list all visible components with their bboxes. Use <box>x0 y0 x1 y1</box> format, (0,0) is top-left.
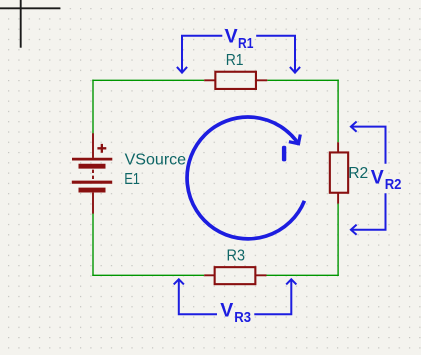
svg-text:R2: R2 <box>348 165 368 182</box>
resistor R3 <box>204 267 266 284</box>
svg-text:VSource: VSource <box>125 151 187 168</box>
svg-text:R1: R1 <box>238 36 253 52</box>
label I <box>282 146 286 162</box>
svg-text:V: V <box>371 166 384 188</box>
cell 2 short plate <box>79 188 106 193</box>
pin 1 (top) <box>92 133 94 158</box>
svg-text:R3: R3 <box>227 247 246 264</box>
current loop arrowhead <box>289 135 300 144</box>
dashed link <box>92 170 94 179</box>
R2 pins <box>337 142 339 203</box>
svg-text:V: V <box>220 300 233 322</box>
current loop arc <box>187 117 304 239</box>
svg-text:R1: R1 <box>226 52 244 69</box>
wire top (net between E1, R1, R2) <box>92 80 338 276</box>
wire right vertical <box>337 80 339 143</box>
wire left vertical <box>92 80 94 134</box>
cell 2 long plate <box>72 181 112 184</box>
svg-text:E1: E1 <box>124 171 140 188</box>
pin 2 (bottom) <box>92 193 94 214</box>
resistor R2 <box>330 142 348 203</box>
VR3 measurement bracket <box>174 279 297 314</box>
cell 1 short plate <box>79 164 106 169</box>
battery VSource E1 <box>72 133 113 213</box>
cell 1 long plate <box>72 158 112 161</box>
R1 pins <box>204 79 267 81</box>
sheet origin crosshair <box>0 0 60 48</box>
plus mark <box>97 144 106 153</box>
VR2 measurement bracket <box>351 122 386 235</box>
VR1 measurement bracket <box>177 36 300 73</box>
wire bottom <box>92 274 204 276</box>
resistor R1 <box>204 72 267 89</box>
svg-text:R2: R2 <box>385 177 402 193</box>
svg-text:V: V <box>225 26 238 48</box>
R3 pins <box>204 274 266 276</box>
svg-text:R3: R3 <box>234 310 251 326</box>
